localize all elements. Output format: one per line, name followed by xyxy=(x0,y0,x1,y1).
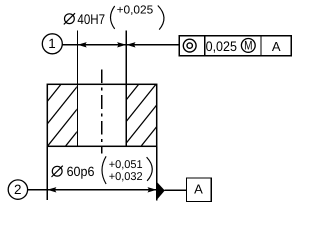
svg-text:40H7: 40H7 xyxy=(77,11,105,27)
svg-text:M: M xyxy=(244,39,252,53)
datum box A xyxy=(187,178,212,202)
extension line left of Ø60 xyxy=(46,146,48,200)
svg-text:60p6: 60p6 xyxy=(67,164,95,179)
hatching left wall xyxy=(11,84,115,146)
arrowhead at right extension line pointing right xyxy=(117,42,126,47)
dimension line Ø40 xyxy=(78,44,127,46)
svg-text:0,025: 0,025 xyxy=(206,39,238,54)
hatching right wall xyxy=(89,84,191,146)
centerline axis (dash-dot) xyxy=(101,69,103,153)
arrowhead at right extension line pointing right xyxy=(148,187,157,192)
modifier circle M xyxy=(241,39,255,53)
diameter symbol of Ø40H7 label xyxy=(64,13,75,24)
closing parenthesis of lower tolerance xyxy=(147,157,153,181)
opening parenthesis of upper tolerance xyxy=(111,6,115,29)
feature control frame box xyxy=(179,36,291,56)
arrowhead at left extension line pointing left xyxy=(47,187,56,192)
balloon circle 2 xyxy=(8,180,27,199)
extension line right of Ø40 bore xyxy=(125,31,127,147)
arrowhead at left extension line pointing left xyxy=(78,42,87,47)
part outline (section rectangle) xyxy=(47,84,156,146)
svg-text:A: A xyxy=(272,39,281,54)
extension line left of Ø40 bore xyxy=(77,31,79,147)
extension line right of Ø60 (datum surface) xyxy=(156,146,158,200)
svg-text:+0,032: +0,032 xyxy=(109,171,143,183)
opening parenthesis of lower tolerance xyxy=(102,156,106,184)
dimension line Ø60 xyxy=(47,189,157,191)
svg-text:1: 1 xyxy=(48,36,55,51)
svg-text:+0,051: +0,051 xyxy=(109,159,143,171)
diameter symbol of Ø60p6 label xyxy=(52,166,63,177)
leader arrowhead pointing left at extension line xyxy=(126,42,135,47)
leader wire from balloon 2 xyxy=(28,189,47,191)
leader wire from balloon 1 xyxy=(62,44,77,46)
svg-text:2: 2 xyxy=(14,182,21,197)
datum triangle (filled) xyxy=(157,182,165,199)
balloon circle 1 xyxy=(42,34,62,54)
leader wire to datum box xyxy=(165,189,187,191)
svg-text:+0,025: +0,025 xyxy=(117,4,154,17)
svg-text:A: A xyxy=(194,181,203,196)
concentricity symbol xyxy=(183,39,196,52)
closing parenthesis of upper tolerance xyxy=(158,6,164,30)
leader wire to feature control frame xyxy=(126,44,179,46)
